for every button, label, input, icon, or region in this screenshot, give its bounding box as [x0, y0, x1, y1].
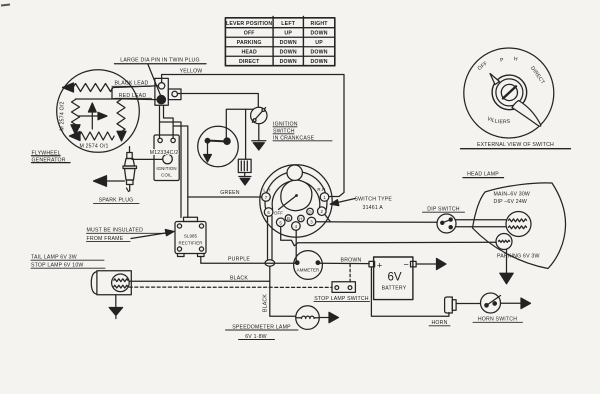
twin plug — [155, 78, 168, 105]
rectifier — [175, 217, 206, 256]
terminal 2 — [318, 207, 327, 216]
tail lamp — [91, 271, 131, 295]
flywheel generator — [32, 70, 140, 164]
svg-text:SWITCH TYPE: SWITCH TYPE — [355, 197, 393, 203]
svg-text:7: 7 — [265, 195, 268, 200]
wires: dip switch to main bulb — [456, 219, 506, 221]
svg-text:UP: UP — [315, 40, 323, 46]
svg-text:H: H — [299, 216, 302, 221]
battery 6V — [369, 257, 416, 300]
wire: terminal 4 to ammeter — [295, 230, 297, 261]
svg-text:DOWN: DOWN — [280, 59, 297, 65]
battery negative wire down to horn — [371, 267, 449, 316]
note: must be insulated from frame — [87, 228, 144, 242]
svg-text:SL985: SL985 — [184, 234, 198, 239]
svg-text:BATTERY: BATTERY — [382, 286, 407, 292]
rotation cross arrows — [79, 103, 107, 129]
ground below tail lamp — [109, 295, 122, 319]
svg-text:DOWN: DOWN — [310, 31, 327, 37]
horn switch — [481, 293, 501, 313]
svg-text:OFF: OFF — [274, 211, 283, 216]
wire: connector to ignition switch — [178, 94, 259, 108]
svg-text:DOWN: DOWN — [310, 59, 327, 65]
svg-text:RIGHT: RIGHT — [311, 21, 329, 27]
leader line to large pin — [148, 65, 161, 97]
ignition coil — [154, 135, 179, 181]
bullet connector junction — [265, 260, 275, 266]
svg-text:M 2574 O/2: M 2574 O/2 — [60, 101, 66, 130]
svg-text:3: 3 — [310, 220, 313, 225]
connector socket beside plug — [168, 89, 181, 100]
ignition coil winding (bottom zigzag) — [70, 132, 115, 141]
wire: terminal 3 to dip switch — [316, 221, 437, 224]
svg-text:UP: UP — [284, 31, 292, 37]
lever position table — [225, 17, 334, 66]
terminal 4 — [292, 222, 301, 231]
svg-text:6V 1·8W: 6V 1·8W — [245, 334, 267, 340]
svg-text:FROM FRAME: FROM FRAME — [87, 236, 124, 242]
ground below head lamp — [500, 250, 513, 284]
horn — [445, 297, 456, 313]
svg-text:OFF: OFF — [244, 31, 255, 37]
main/dip bulb — [506, 212, 531, 237]
svg-text:−: − — [404, 260, 409, 270]
ground below ignition switch — [252, 124, 266, 150]
contact H — [298, 215, 305, 222]
stop lamp switch — [332, 264, 355, 292]
svg-text:MUST BE INSULATED: MUST BE INSULATED — [87, 228, 144, 234]
red lead wire — [112, 98, 157, 101]
rotor pivot top circle — [287, 165, 302, 180]
svg-text:M 2574 O/1: M 2574 O/1 — [79, 144, 108, 150]
head lamp shell — [473, 183, 566, 269]
ground below condenser — [239, 173, 251, 186]
svg-text:GREEN: GREEN — [220, 190, 240, 196]
hot lead: spark plug to coil — [132, 158, 163, 160]
terminal 3 — [307, 217, 316, 226]
black lead label — [114, 81, 148, 87]
wire: ignition switch to contact breaker — [226, 109, 253, 138]
svg-text:SPEEDOMETER LAMP: SPEEDOMETER LAMP — [232, 324, 291, 330]
svg-text:M12334C/2: M12334C/2 — [150, 150, 179, 156]
ground arrow at spark plug — [94, 176, 125, 187]
svg-text:HORN SWITCH: HORN SWITCH — [478, 317, 517, 323]
svg-text:DOWN: DOWN — [310, 50, 327, 56]
svg-text:LARGE DIA PIN IN TWIN PLUG: LARGE DIA PIN IN TWIN PLUG — [120, 58, 199, 64]
parking bulb — [496, 234, 512, 250]
yellow label — [180, 68, 203, 74]
condenser — [238, 109, 251, 172]
svg-text:+: + — [377, 261, 382, 271]
battery earth arrow — [416, 258, 446, 269]
switch type callout — [355, 197, 393, 211]
purple wire: rectifier to ammeter — [201, 257, 296, 264]
svg-text:1: 1 — [323, 195, 326, 200]
svg-text:DIRECT: DIRECT — [239, 59, 260, 65]
svg-text:HORN: HORN — [431, 320, 447, 326]
generator left winding — [71, 100, 80, 135]
dip switch — [437, 214, 456, 233]
svg-text:B: B — [287, 216, 290, 221]
svg-text:RECTIFIER: RECTIFIER — [178, 241, 202, 246]
switch contact band — [265, 171, 327, 212]
wires: switch terminal 6 down to junction — [267, 216, 269, 259]
main lighting switch 31461A — [260, 165, 332, 237]
svg-text:IGNITION: IGNITION — [156, 166, 176, 171]
red lead label — [119, 93, 147, 99]
svg-text:6V: 6V — [387, 272, 401, 284]
yellow wire: plug to switch terminal 1 — [162, 75, 344, 197]
svg-text:DOWN: DOWN — [280, 40, 297, 46]
svg-text:2: 2 — [321, 209, 324, 214]
svg-text:EXTERNAL VIEW OF SWITCH: EXTERNAL VIEW OF SWITCH — [477, 142, 554, 148]
svg-text:LEVER POSITION: LEVER POSITION — [226, 21, 272, 27]
svg-text:HEAD: HEAD — [241, 50, 257, 56]
lighting coil winding (top zigzag) — [63, 83, 114, 92]
black lead wire — [76, 86, 159, 99]
svg-text:BLACK: BLACK — [230, 275, 248, 281]
terminal 1 — [320, 193, 329, 202]
svg-text:PARKING 6V 3W: PARKING 6V 3W — [497, 253, 540, 259]
svg-text:PARKING: PARKING — [237, 40, 262, 46]
speedometer lamp — [296, 306, 320, 330]
svg-text:DIP SWITCH: DIP SWITCH — [427, 206, 460, 212]
svg-text:AMMETER: AMMETER — [297, 268, 320, 273]
black wire: junction down to speedometer lamp — [270, 266, 296, 316]
wire: terminal 2 stub — [325, 214, 331, 222]
contact breaker — [198, 126, 239, 167]
svg-text:31461 A: 31461 A — [363, 205, 384, 211]
ammeter — [294, 251, 323, 280]
svg-text:L.H: L.H — [263, 188, 270, 193]
tail lamp label — [31, 255, 84, 269]
terminal 6 — [264, 208, 273, 217]
svg-text:BLACK: BLACK — [262, 294, 268, 312]
scan speck top-left — [1, 5, 10, 6]
svg-text:BROWN: BROWN — [341, 257, 362, 263]
generator right winding — [117, 100, 126, 142]
svg-text:DOWN: DOWN — [280, 50, 297, 56]
ignition switch label — [273, 122, 315, 142]
brown wire: ammeter to battery — [320, 262, 370, 264]
svg-text:D: D — [308, 209, 311, 214]
svg-text:5: 5 — [279, 220, 282, 225]
svg-text:MAIN–6V 30W: MAIN–6V 30W — [494, 191, 531, 197]
horn switch earth arrow — [501, 298, 531, 309]
black wire: tail lamp to junction — [129, 280, 270, 282]
svg-text:YELLOW: YELLOW — [180, 68, 203, 74]
wire: terminal 5 to parking lamp (with hop) — [281, 227, 497, 246]
note: large dia pin in twin plug — [120, 58, 199, 64]
svg-text:4: 4 — [295, 224, 298, 229]
svg-text:R.H: R.H — [317, 187, 325, 192]
svg-text:LEFT: LEFT — [281, 21, 295, 27]
svg-text:HEAD LAMP: HEAD LAMP — [467, 171, 499, 177]
terminal 5 — [276, 218, 285, 227]
winding labels M2574O/2 and M2574O/1 — [60, 101, 109, 149]
switch cam rotor — [281, 180, 312, 211]
wires: plug to coil and down to rectifier — [160, 105, 188, 217]
switch labels — [263, 187, 325, 215]
external view of switch — [461, 48, 571, 149]
svg-text:SPARK PLUG: SPARK PLUG — [99, 198, 134, 204]
svg-text:BLACK LEAD: BLACK LEAD — [114, 81, 148, 87]
spark plug — [123, 147, 137, 192]
wire: horn to horn switch — [456, 303, 480, 305]
black label (vertical) — [262, 294, 268, 312]
green wire: to switch terminal 7 — [188, 196, 262, 198]
stop lamp wire (dashed) — [129, 286, 332, 288]
ignition switch in crankcase — [251, 107, 267, 123]
contact B — [285, 215, 292, 222]
svg-text:PURPLE: PURPLE — [228, 257, 250, 263]
spark plug label — [99, 198, 134, 204]
svg-text:DIP –6V 24W: DIP –6V 24W — [494, 199, 528, 205]
ignition coil labels — [150, 150, 179, 177]
svg-text:STOP LAMP SWITCH: STOP LAMP SWITCH — [314, 296, 369, 302]
speedometer lamp earth arrow — [319, 312, 338, 322]
terminal 7 — [262, 193, 271, 202]
contact D — [307, 208, 314, 215]
svg-text:COIL: COIL — [161, 173, 172, 178]
